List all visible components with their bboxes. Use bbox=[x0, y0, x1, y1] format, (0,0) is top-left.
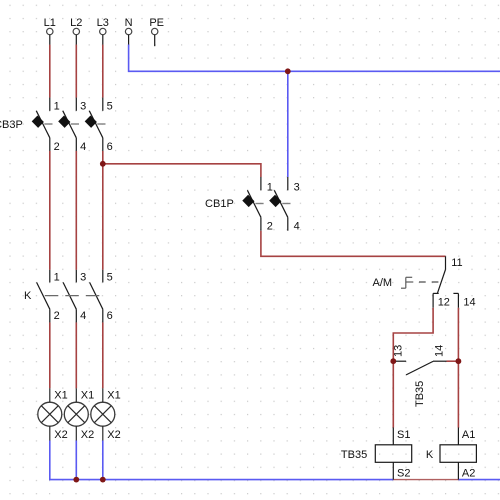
svg-text:N: N bbox=[125, 17, 133, 29]
svg-text:X1: X1 bbox=[107, 389, 120, 401]
svg-text:A1: A1 bbox=[462, 429, 475, 441]
svg-text:4: 4 bbox=[294, 221, 300, 233]
svg-text:A2: A2 bbox=[462, 468, 475, 480]
svg-text:K: K bbox=[426, 449, 434, 461]
svg-text:4: 4 bbox=[80, 310, 86, 322]
svg-text:13: 13 bbox=[393, 345, 405, 357]
svg-text:3: 3 bbox=[294, 181, 300, 193]
svg-text:CB3P: CB3P bbox=[0, 119, 23, 131]
svg-text:3: 3 bbox=[80, 100, 86, 112]
svg-text:5: 5 bbox=[107, 271, 113, 283]
svg-text:14: 14 bbox=[463, 297, 475, 309]
svg-text:6: 6 bbox=[107, 310, 113, 322]
svg-text:2: 2 bbox=[54, 310, 60, 322]
svg-text:L2: L2 bbox=[70, 17, 82, 29]
svg-text:2: 2 bbox=[54, 141, 60, 153]
svg-text:1: 1 bbox=[54, 100, 60, 112]
svg-text:TB35: TB35 bbox=[341, 449, 367, 461]
svg-text:6: 6 bbox=[107, 141, 113, 153]
svg-text:3: 3 bbox=[80, 271, 86, 283]
svg-text:CB1P: CB1P bbox=[205, 198, 234, 210]
svg-text:S1: S1 bbox=[397, 429, 410, 441]
svg-text:X1: X1 bbox=[81, 389, 94, 401]
svg-text:1: 1 bbox=[54, 271, 60, 283]
svg-text:X2: X2 bbox=[54, 429, 67, 441]
svg-text:X1: X1 bbox=[54, 389, 67, 401]
svg-text:TB35: TB35 bbox=[414, 381, 426, 407]
svg-text:1: 1 bbox=[267, 181, 273, 193]
svg-text:14: 14 bbox=[433, 345, 445, 357]
svg-text:S2: S2 bbox=[397, 468, 410, 480]
svg-text:4: 4 bbox=[80, 141, 86, 153]
svg-text:11: 11 bbox=[451, 257, 462, 269]
svg-text:12: 12 bbox=[438, 297, 450, 309]
svg-text:A/M: A/M bbox=[373, 277, 393, 289]
svg-text:2: 2 bbox=[267, 221, 273, 233]
svg-text:5: 5 bbox=[107, 100, 113, 112]
svg-text:L1: L1 bbox=[44, 17, 56, 29]
svg-text:PE: PE bbox=[149, 17, 164, 29]
svg-text:L3: L3 bbox=[97, 17, 109, 29]
svg-text:K: K bbox=[24, 290, 32, 302]
svg-text:X2: X2 bbox=[107, 429, 120, 441]
svg-text:X2: X2 bbox=[81, 429, 94, 441]
